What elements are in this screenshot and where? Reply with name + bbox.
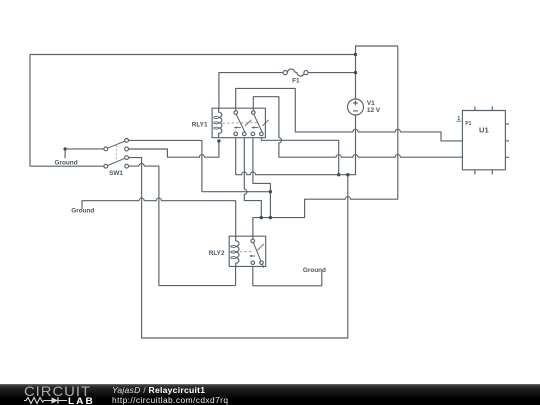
- svg-text:Ground: Ground: [71, 207, 94, 214]
- svg-text:P1: P1: [465, 121, 471, 127]
- svg-text:U1: U1: [479, 125, 489, 134]
- svg-text:1: 1: [457, 116, 460, 122]
- svg-text:SW1: SW1: [109, 170, 123, 177]
- svg-text:12 V: 12 V: [367, 107, 381, 114]
- svg-text:Ground: Ground: [303, 267, 326, 274]
- svg-text:V1: V1: [367, 100, 375, 107]
- svg-text:RLY2: RLY2: [209, 250, 225, 257]
- svg-text:F1: F1: [292, 78, 300, 85]
- svg-text:Ground: Ground: [55, 160, 78, 167]
- svg-text:RLY1: RLY1: [192, 122, 208, 129]
